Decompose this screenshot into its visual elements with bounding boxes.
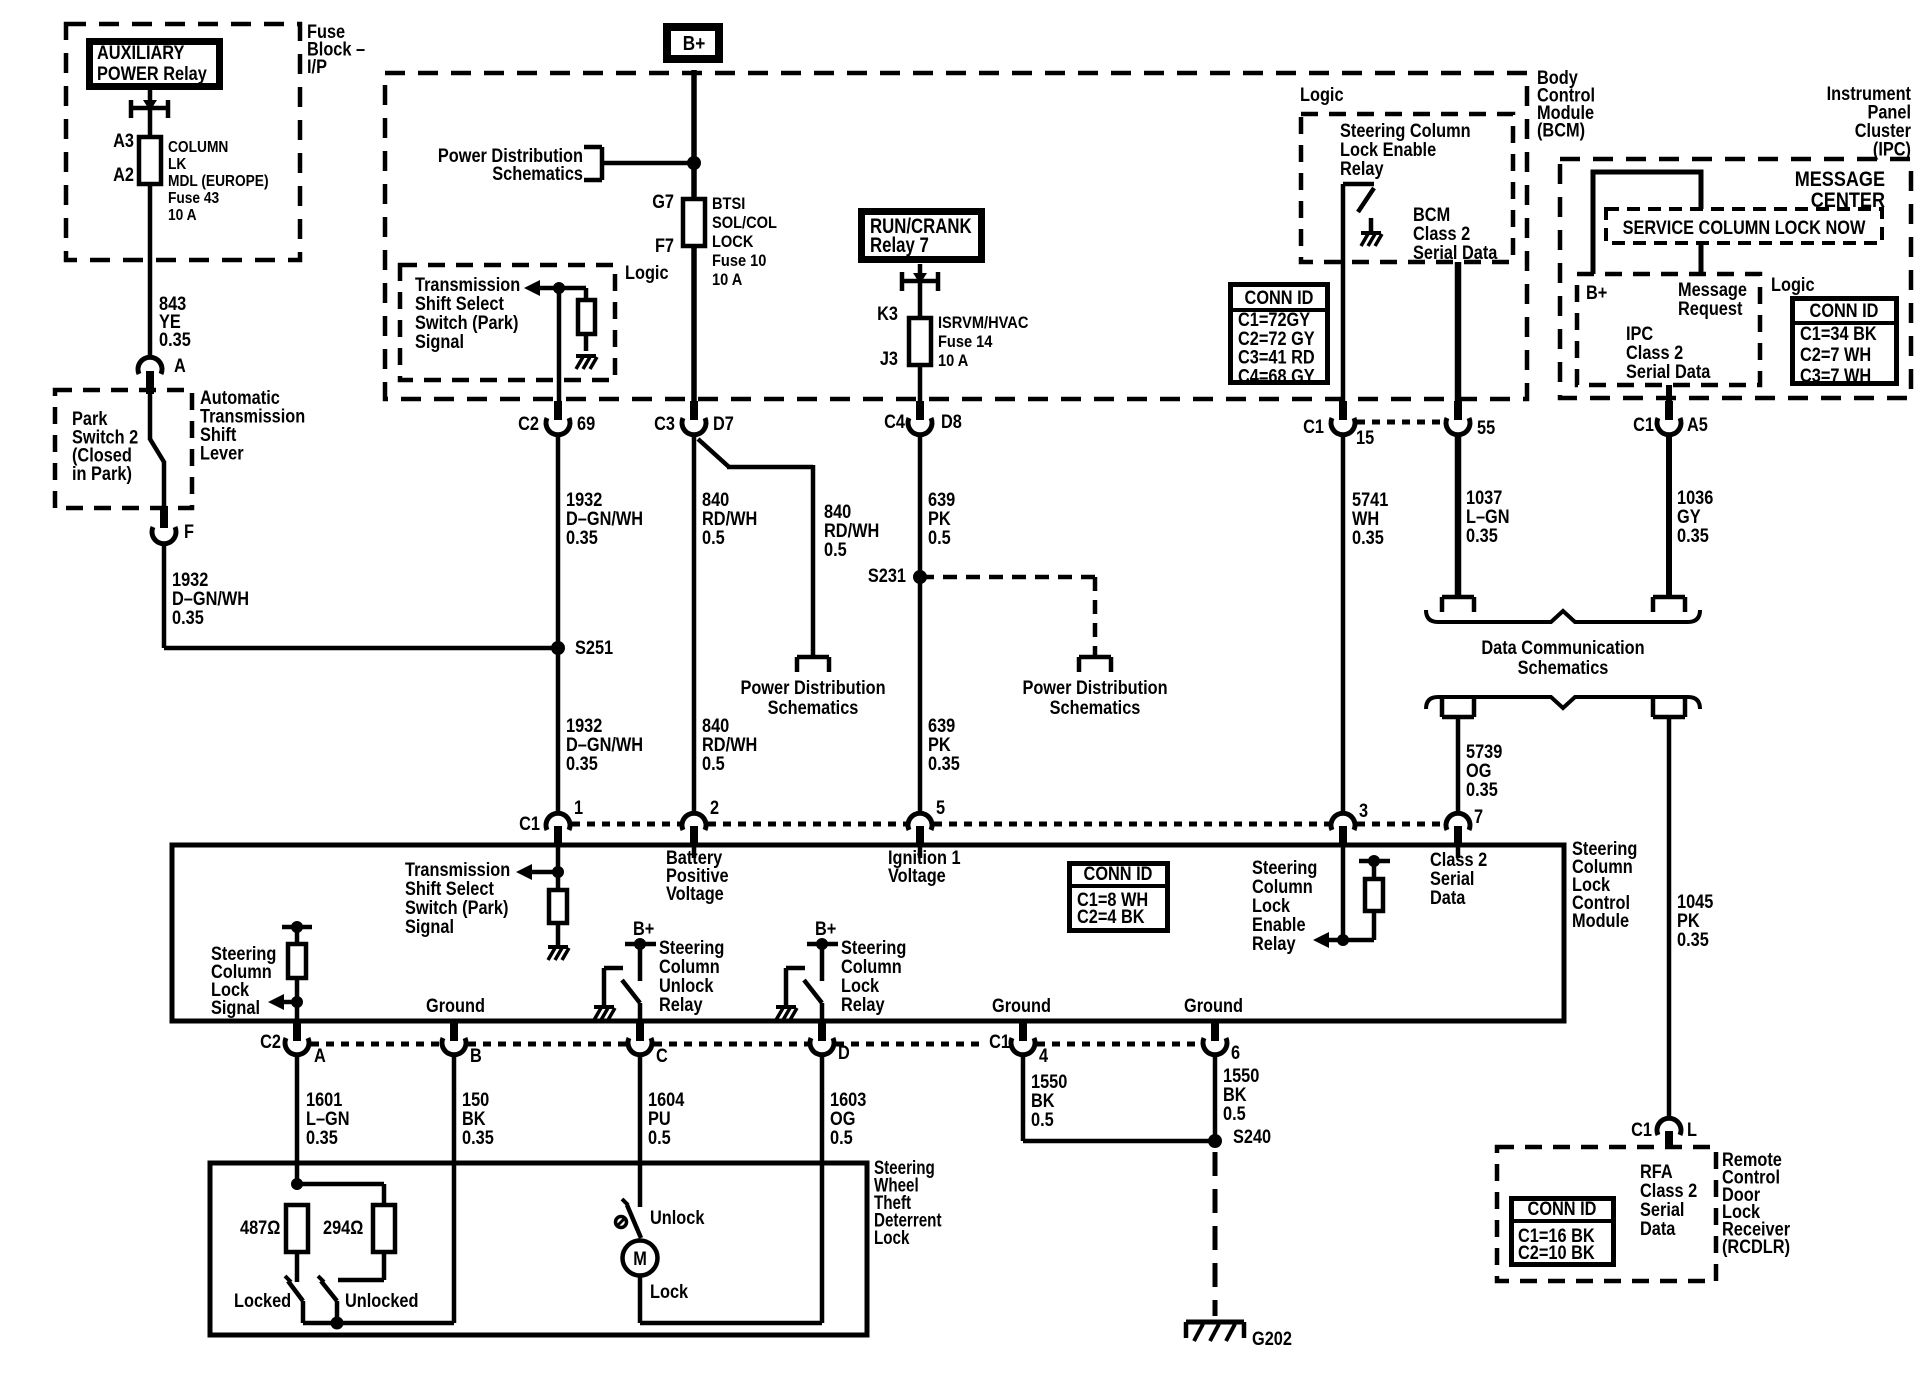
- svg-text:Logic: Logic: [1771, 274, 1815, 295]
- svg-text:0.5: 0.5: [1223, 1103, 1246, 1124]
- svg-text:A5: A5: [1687, 414, 1708, 435]
- svg-text:C3=7 WH: C3=7 WH: [1800, 365, 1871, 386]
- svg-text:Voltage: Voltage: [888, 865, 946, 886]
- svg-text:SERVICE COLUMN LOCK NOW: SERVICE COLUMN LOCK NOW: [1623, 217, 1866, 238]
- svg-text:(IPC): (IPC): [1873, 138, 1911, 159]
- svg-text:6: 6: [1231, 1042, 1240, 1063]
- svg-text:in Park): in Park): [72, 463, 132, 484]
- svg-text:Fuse 43: Fuse 43: [168, 189, 219, 207]
- svg-text:F: F: [184, 521, 194, 542]
- svg-text:10 A: 10 A: [168, 206, 197, 224]
- svg-text:M: M: [633, 1248, 647, 1269]
- svg-text:Unlocked: Unlocked: [345, 1290, 418, 1311]
- svg-text:0.5: 0.5: [648, 1127, 671, 1148]
- svg-text:0.5: 0.5: [830, 1127, 853, 1148]
- svg-text:C2=4 BK: C2=4 BK: [1077, 906, 1145, 927]
- svg-text:Signal: Signal: [405, 916, 454, 937]
- svg-text:B+: B+: [683, 32, 706, 55]
- svg-text:Fuse 14: Fuse 14: [938, 333, 993, 351]
- svg-text:294Ω: 294Ω: [323, 1217, 363, 1238]
- svg-text:C1: C1: [989, 1031, 1010, 1052]
- svg-text:Logic: Logic: [1300, 84, 1344, 105]
- svg-text:Request: Request: [1678, 298, 1743, 319]
- svg-text:A2: A2: [113, 164, 134, 185]
- svg-text:Lock: Lock: [874, 1226, 910, 1248]
- svg-text:Lever: Lever: [200, 442, 244, 463]
- svg-text:Logic: Logic: [625, 262, 669, 283]
- svg-text:5: 5: [936, 797, 945, 818]
- svg-text:Serial Data: Serial Data: [1413, 242, 1498, 263]
- svg-text:0.35: 0.35: [306, 1127, 338, 1148]
- svg-text:487Ω: 487Ω: [240, 1217, 280, 1238]
- svg-text:Relay: Relay: [1340, 158, 1384, 179]
- svg-text:B+: B+: [633, 918, 654, 939]
- svg-text:C2: C2: [260, 1031, 281, 1052]
- svg-text:Fuse 10: Fuse 10: [712, 252, 767, 270]
- svg-text:C1: C1: [1633, 414, 1654, 435]
- svg-text:0.5: 0.5: [702, 527, 725, 548]
- svg-text:0.5: 0.5: [824, 539, 847, 560]
- svg-text:55: 55: [1477, 417, 1495, 438]
- svg-text:0.35: 0.35: [172, 607, 204, 628]
- svg-text:Schematics: Schematics: [492, 163, 583, 184]
- svg-text:C1: C1: [1303, 416, 1324, 437]
- svg-text:L: L: [1687, 1119, 1697, 1140]
- svg-text:Schematics: Schematics: [1518, 657, 1609, 678]
- svg-text:0.35: 0.35: [462, 1127, 494, 1148]
- svg-text:BTSI: BTSI: [712, 195, 745, 213]
- svg-text:CONN ID: CONN ID: [1810, 300, 1879, 321]
- svg-text:0.35: 0.35: [1677, 929, 1709, 950]
- svg-text:Relay: Relay: [841, 994, 885, 1015]
- svg-text:C4=68 GY: C4=68 GY: [1238, 365, 1315, 386]
- svg-text:Unlock: Unlock: [650, 1207, 705, 1228]
- svg-text:POWER Relay: POWER Relay: [97, 63, 207, 84]
- svg-text:3: 3: [1359, 800, 1368, 821]
- svg-text:Relay: Relay: [659, 994, 703, 1015]
- svg-text:7: 7: [1474, 806, 1483, 827]
- svg-text:Power Distribution: Power Distribution: [740, 677, 885, 698]
- svg-text:B+: B+: [815, 918, 836, 939]
- svg-text:C1: C1: [519, 813, 540, 834]
- svg-text:0.5: 0.5: [702, 753, 725, 774]
- svg-text:0.35: 0.35: [566, 527, 598, 548]
- svg-text:4: 4: [1039, 1045, 1048, 1066]
- svg-text:CONN ID: CONN ID: [1245, 287, 1314, 308]
- svg-text:COLUMN: COLUMN: [168, 138, 228, 156]
- svg-text:0.35: 0.35: [1466, 779, 1498, 800]
- svg-text:MDL (EUROPE): MDL (EUROPE): [168, 172, 269, 190]
- svg-text:S240: S240: [1233, 1126, 1271, 1147]
- svg-text:K3: K3: [877, 303, 898, 324]
- svg-text:0.35: 0.35: [928, 753, 960, 774]
- svg-text:G7: G7: [652, 191, 674, 212]
- svg-text:A3: A3: [113, 130, 134, 151]
- svg-text:Data: Data: [1430, 887, 1466, 908]
- svg-text:Locked: Locked: [234, 1290, 291, 1311]
- svg-text:LK: LK: [168, 155, 187, 173]
- svg-text:B: B: [470, 1045, 482, 1066]
- svg-text:Ground: Ground: [992, 995, 1051, 1016]
- svg-text:ISRVM/HVAC: ISRVM/HVAC: [938, 314, 1029, 332]
- svg-text:Signal: Signal: [211, 997, 260, 1018]
- svg-text:S231: S231: [868, 565, 906, 586]
- svg-text:CONN ID: CONN ID: [1528, 1198, 1597, 1219]
- svg-text:1: 1: [574, 797, 583, 818]
- svg-text:10 A: 10 A: [712, 271, 743, 289]
- svg-text:A: A: [174, 355, 186, 376]
- svg-text:C1=34 BK: C1=34 BK: [1800, 323, 1877, 344]
- svg-text:Data: Data: [1640, 1218, 1676, 1239]
- svg-text:0.35: 0.35: [1677, 525, 1709, 546]
- svg-text:15: 15: [1356, 427, 1374, 448]
- svg-text:C2=7 WH: C2=7 WH: [1800, 344, 1871, 365]
- svg-text:C3: C3: [654, 413, 675, 434]
- svg-text:SOL/COL: SOL/COL: [712, 214, 777, 232]
- svg-text:0.35: 0.35: [1352, 527, 1384, 548]
- svg-text:10 A: 10 A: [938, 352, 969, 370]
- svg-text:C4: C4: [884, 411, 905, 432]
- svg-text:Relay: Relay: [1252, 933, 1296, 954]
- svg-text:G202: G202: [1252, 1328, 1292, 1349]
- svg-text:Signal: Signal: [415, 331, 464, 352]
- svg-text:Data Communication: Data Communication: [1481, 637, 1644, 658]
- svg-text:69: 69: [577, 413, 595, 434]
- svg-text:(BCM): (BCM): [1537, 119, 1585, 140]
- svg-text:2: 2: [710, 797, 719, 818]
- svg-text:Ground: Ground: [1184, 995, 1243, 1016]
- svg-text:(RCDLR): (RCDLR): [1722, 1236, 1790, 1257]
- svg-text:A: A: [314, 1045, 326, 1066]
- svg-text:C2: C2: [518, 413, 539, 434]
- svg-text:0.35: 0.35: [159, 329, 191, 350]
- svg-text:Relay 7: Relay 7: [870, 234, 929, 257]
- svg-text:C2=10 BK: C2=10 BK: [1518, 1242, 1595, 1263]
- svg-text:0.35: 0.35: [1466, 525, 1498, 546]
- svg-text:C1: C1: [1631, 1119, 1652, 1140]
- svg-text:B+: B+: [1586, 282, 1607, 303]
- svg-text:CONN ID: CONN ID: [1084, 863, 1153, 884]
- svg-text:Power Distribution: Power Distribution: [1022, 677, 1167, 698]
- svg-text:J3: J3: [880, 348, 898, 369]
- svg-text:0.5: 0.5: [1031, 1109, 1054, 1130]
- svg-text:Module: Module: [1572, 910, 1629, 931]
- svg-text:Ground: Ground: [426, 995, 485, 1016]
- svg-text:Lock: Lock: [650, 1281, 688, 1302]
- svg-text:I/P: I/P: [307, 56, 327, 77]
- svg-text:LOCK: LOCK: [712, 233, 754, 251]
- svg-text:F7: F7: [655, 235, 674, 256]
- svg-text:0.5: 0.5: [928, 527, 951, 548]
- svg-text:Schematics: Schematics: [768, 697, 859, 718]
- svg-text:D8: D8: [941, 411, 962, 432]
- svg-text:0.35: 0.35: [566, 753, 598, 774]
- svg-text:S251: S251: [575, 637, 613, 658]
- svg-text:C: C: [656, 1045, 668, 1066]
- svg-text:D7: D7: [713, 413, 734, 434]
- svg-text:AUXILIARY: AUXILIARY: [97, 42, 185, 63]
- svg-text:Voltage: Voltage: [666, 883, 724, 904]
- svg-text:Schematics: Schematics: [1050, 697, 1141, 718]
- svg-text:Serial Data: Serial Data: [1626, 361, 1711, 382]
